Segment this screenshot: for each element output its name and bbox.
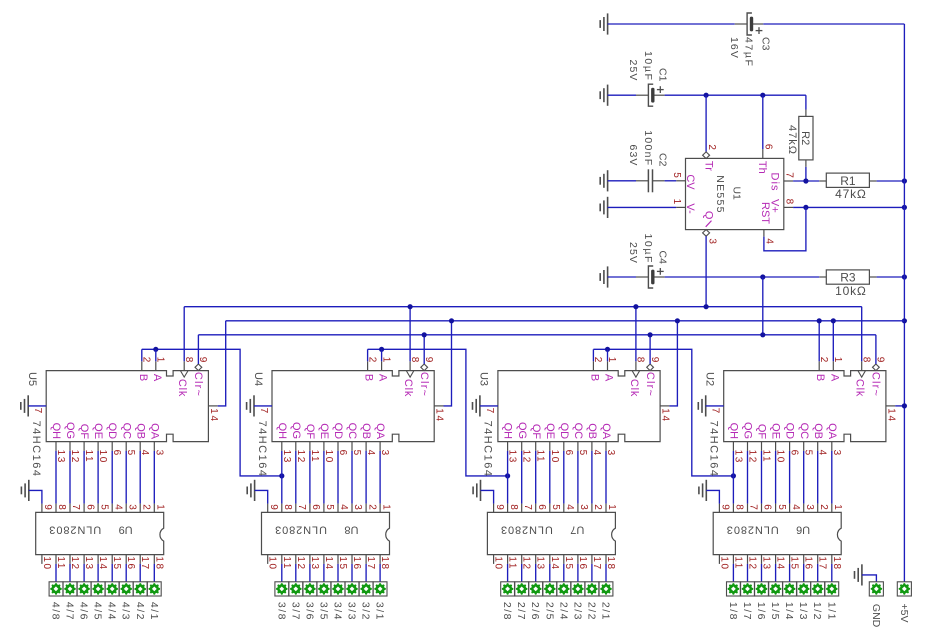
pin R3 right xyxy=(869,276,876,278)
ground (GND connector) xyxy=(855,564,862,585)
svg-text:1/7: 1/7 xyxy=(741,602,753,621)
svg-text:47µF: 47µF xyxy=(742,37,754,68)
svg-text:QC: QC xyxy=(120,423,132,440)
svg-text:V-: V- xyxy=(684,203,696,214)
wire U6 pin 17 to connector xyxy=(817,564,819,582)
svg-text:4: 4 xyxy=(139,450,150,457)
wire U4 QB to U8 pin 2 xyxy=(365,451,367,504)
svg-text:ULN2803: ULN2803 xyxy=(48,523,101,535)
pin stub U6 pin 17 xyxy=(817,555,819,564)
svg-text:2: 2 xyxy=(366,504,377,510)
pin 8 stub U3 xyxy=(635,361,637,370)
wire clock bus to U3 pin 8 xyxy=(635,307,637,362)
pin stub U7 pin 8 xyxy=(507,504,509,513)
pin stub U8 pin 11 xyxy=(281,555,283,564)
svg-text:2: 2 xyxy=(706,144,717,150)
svg-text:QE: QE xyxy=(770,423,782,439)
svg-text:2/5: 2/5 xyxy=(543,602,555,621)
svg-text:10: 10 xyxy=(97,450,108,464)
ground (C3) xyxy=(600,13,607,34)
connector cell 3/7 xyxy=(289,582,303,596)
junction VCC bus/B U2 xyxy=(817,318,822,323)
pin R1 right xyxy=(869,180,876,182)
pin stub U9 pin 2 xyxy=(139,504,141,513)
svg-text:QD: QD xyxy=(558,423,570,440)
svg-text:10: 10 xyxy=(493,556,504,570)
svg-text:6: 6 xyxy=(763,144,774,150)
pin stub U8 pin 10 xyxy=(267,555,269,564)
svg-text:QD: QD xyxy=(332,423,344,440)
connector pin 3/2 xyxy=(360,583,372,595)
svg-text:1/6: 1/6 xyxy=(755,602,767,621)
junction rail U2 pin14 xyxy=(902,403,907,408)
+V rail vertical xyxy=(903,24,905,582)
svg-text:2: 2 xyxy=(592,504,603,510)
svg-text:GND: GND xyxy=(870,604,882,628)
pin stub U7 pin 10 xyxy=(493,555,495,564)
connector cell 4/3 xyxy=(119,582,133,596)
svg-text:6: 6 xyxy=(84,504,95,510)
connector cell 3/4 xyxy=(331,582,345,596)
pin QA stub U4 xyxy=(379,442,381,451)
svg-text:R3: R3 xyxy=(840,271,856,285)
connector cell 2/1 xyxy=(599,582,613,596)
svg-text:4: 4 xyxy=(564,504,575,510)
pin stub U8 pin 5 xyxy=(323,504,325,513)
svg-text:2/3: 2/3 xyxy=(571,602,583,621)
svg-text:63V: 63V xyxy=(627,145,639,167)
pin stub U6 pin 12 xyxy=(747,555,749,564)
wire U2 QB to U6 pin 2 xyxy=(817,451,819,504)
junction VCC bus/A U2 xyxy=(831,318,836,323)
junction cascade/QH xyxy=(731,473,736,478)
junction pin8/pin4 xyxy=(803,205,808,210)
svg-text:4/4: 4/4 xyxy=(106,602,118,621)
svg-text:10: 10 xyxy=(41,556,52,570)
pin stub U7 pin 14 xyxy=(549,555,551,564)
wire clear bus to U5 pin 9 xyxy=(197,335,199,364)
wire U9 pin 18 to connector xyxy=(153,564,155,582)
connector pin 3/6 xyxy=(304,583,316,595)
wire U6 pin 15 to connector xyxy=(789,564,791,582)
wire U6 pin 11 to connector xyxy=(732,564,734,582)
pin 14 stub U3 xyxy=(660,405,669,407)
svg-text:QH: QH xyxy=(50,423,62,440)
connector pin GND xyxy=(871,583,883,595)
pin A stub U3 xyxy=(607,361,609,370)
wire cascade into U4 A/B xyxy=(368,349,508,476)
pin stub U8 pin 4 xyxy=(337,504,339,513)
svg-text:CV: CV xyxy=(684,174,696,190)
pin stub U9 pin 8 xyxy=(55,504,57,513)
pin stub U9 pin 6 xyxy=(83,504,85,513)
wire U8 pin 14 to connector xyxy=(323,564,325,582)
pin stub U7 pin 3 xyxy=(577,504,579,513)
svg-text:QB: QB xyxy=(360,423,372,439)
wire pin 8 to +V rail xyxy=(793,206,904,208)
pin R2 top xyxy=(805,110,807,117)
svg-text:4/7: 4/7 xyxy=(64,602,76,621)
pin stub U8 pin 3 xyxy=(351,504,353,513)
wire U8 pin 16 to connector xyxy=(351,564,353,582)
wire C4 to R3 xyxy=(665,276,820,278)
wire U2 QD to U6 pin 4 xyxy=(789,451,791,504)
wire U3 QH to U7 pin 8 xyxy=(507,451,509,504)
IC U8 ULN2803 body xyxy=(262,512,390,554)
svg-text:11: 11 xyxy=(761,450,772,464)
svg-text:5: 5 xyxy=(550,504,561,510)
wire U7 pin 11 to connector xyxy=(507,564,509,582)
svg-text:QH: QH xyxy=(728,423,740,440)
svg-text:12: 12 xyxy=(521,450,532,464)
svg-text:47kΩ: 47kΩ xyxy=(835,187,867,201)
svg-text:Clr~: Clr~ xyxy=(192,372,204,397)
pin stub U9 pin 10 xyxy=(41,555,43,564)
connector cell 4/5 xyxy=(91,582,105,596)
svg-text:RST: RST xyxy=(759,202,771,224)
svg-text:ULN2803: ULN2803 xyxy=(500,523,553,535)
pin R1 left xyxy=(819,180,826,182)
svg-text:16V: 16V xyxy=(728,37,740,59)
ground U6 pin 9 xyxy=(699,480,706,501)
pin QE stub U5 xyxy=(97,442,99,451)
svg-text:4: 4 xyxy=(338,504,349,510)
svg-text:4/1: 4/1 xyxy=(148,602,160,621)
pin A stub U5 xyxy=(155,361,157,370)
wire A U3 xyxy=(607,349,609,361)
svg-text:QF: QF xyxy=(304,424,316,440)
ground U7 pin 9 xyxy=(473,480,480,501)
pin stub U8 pin 17 xyxy=(365,555,367,564)
svg-text:Th: Th xyxy=(756,161,768,174)
svg-text:C4: C4 xyxy=(656,251,668,265)
connector cell 1/1 xyxy=(825,582,839,596)
svg-text:1: 1 xyxy=(380,504,391,510)
svg-text:7: 7 xyxy=(70,504,81,510)
svg-text:7: 7 xyxy=(296,504,307,510)
svg-text:QH: QH xyxy=(502,423,514,440)
svg-text:U8: U8 xyxy=(344,523,358,535)
svg-text:4: 4 xyxy=(817,450,828,457)
wire R2 to pin7 net xyxy=(805,167,807,181)
svg-text:12: 12 xyxy=(747,450,758,464)
capacitor C2 xyxy=(636,169,665,192)
wire B U4 xyxy=(367,349,369,361)
junction A/B U5 xyxy=(153,347,158,352)
svg-text:Clk: Clk xyxy=(402,379,414,397)
wire U5 QH to U9 pin 8 xyxy=(55,451,57,504)
wire VCC bus to U2 B xyxy=(818,321,820,362)
ground U3 pin 7 xyxy=(473,395,480,416)
pin QD stub U3 xyxy=(563,442,565,451)
svg-text:3: 3 xyxy=(804,504,815,510)
svg-text:U6: U6 xyxy=(796,523,810,535)
connector pin 3/7 xyxy=(290,583,302,595)
pin stub U6 pin 11 xyxy=(732,555,734,564)
pin stub U6 pin 16 xyxy=(803,555,805,564)
svg-text:6: 6 xyxy=(789,450,800,457)
IC U2 74HC164 body xyxy=(724,371,886,442)
wire B U5 xyxy=(141,349,143,361)
svg-text:3/3: 3/3 xyxy=(346,602,358,621)
pin stub U6 pin 4 xyxy=(789,504,791,513)
pin QA stub U5 xyxy=(153,442,155,451)
pin stub U7 pin 4 xyxy=(563,504,565,513)
svg-text:6: 6 xyxy=(111,450,122,457)
wire pin 4 to pin 8 net xyxy=(764,207,806,250)
svg-text:QC: QC xyxy=(798,423,810,440)
svg-text:Dis: Dis xyxy=(768,173,780,192)
svg-text:74HC164: 74HC164 xyxy=(482,421,494,478)
svg-text:QG: QG xyxy=(516,422,528,439)
svg-text:3/4: 3/4 xyxy=(332,602,344,621)
svg-text:C3: C3 xyxy=(760,37,772,51)
wire U9 pin 11 to connector xyxy=(55,564,57,582)
wire U8 pin 11 to connector xyxy=(281,564,283,582)
connector cell 1/7 xyxy=(741,582,755,596)
pin stub U6 pin 15 xyxy=(789,555,791,564)
wire ground to U5 pin 7 xyxy=(28,405,46,407)
connector cell 1/4 xyxy=(783,582,797,596)
wire C3 right to +V rail xyxy=(763,23,904,25)
svg-text:13: 13 xyxy=(55,450,66,464)
pin stub U6 pin 18 xyxy=(831,555,833,564)
svg-text:B: B xyxy=(588,374,600,381)
pin QC stub U3 xyxy=(577,442,579,451)
pin stub U9 pin 13 xyxy=(83,555,85,564)
wire C1 left xyxy=(608,94,636,96)
connector pin 1/2 xyxy=(812,583,824,595)
pin QE stub U4 xyxy=(323,442,325,451)
pin B stub U2 xyxy=(818,361,820,370)
pin stub U6 pin 14 xyxy=(775,555,777,564)
svg-text:6: 6 xyxy=(762,504,773,510)
wire A U5 xyxy=(155,349,157,361)
wire U7 pin 12 to connector xyxy=(521,564,523,582)
svg-text:3: 3 xyxy=(578,504,589,510)
svg-text:U2: U2 xyxy=(704,372,716,386)
svg-text:ULN2803: ULN2803 xyxy=(726,523,779,535)
svg-text:2/2: 2/2 xyxy=(585,602,597,621)
svg-text:5: 5 xyxy=(98,504,109,510)
pin QG stub U2 xyxy=(747,442,749,451)
pin stub U8 pin 1 xyxy=(379,504,381,513)
svg-text:100nF: 100nF xyxy=(642,130,654,166)
resistor R2 xyxy=(799,116,813,159)
pin stub U8 pin 2 xyxy=(365,504,367,513)
inversion bubble Clr U2 xyxy=(873,364,880,371)
pin QE stub U3 xyxy=(549,442,551,451)
wire U9 pin 13 to connector xyxy=(83,564,85,582)
pin QB stub U3 xyxy=(591,442,593,451)
connector cell 2/7 xyxy=(515,582,529,596)
pin 14 stub U2 xyxy=(886,405,895,407)
pin QC stub U2 xyxy=(803,442,805,451)
pin stub U7 pin 15 xyxy=(563,555,565,564)
svg-text:11: 11 xyxy=(535,450,546,464)
pin QB stub U2 xyxy=(817,442,819,451)
connector pin 4/3 xyxy=(120,583,132,595)
svg-text:12: 12 xyxy=(69,450,80,464)
connector cell 4/1 xyxy=(147,582,161,596)
svg-text:9: 9 xyxy=(42,504,53,510)
svg-text:QC: QC xyxy=(572,423,584,440)
svg-text:3/6: 3/6 xyxy=(303,602,315,621)
wire U4 QH to U8 pin 8 xyxy=(281,451,283,504)
pin 5 stub xyxy=(676,180,685,182)
svg-text:4: 4 xyxy=(790,504,801,510)
wire cascade into U5 A/B xyxy=(142,349,282,476)
wire U5 QG to U9 pin 7 xyxy=(69,451,71,504)
pin QC stub U5 xyxy=(125,442,127,451)
connector pin 2/5 xyxy=(544,583,556,595)
pin stub U7 pin 9 xyxy=(493,504,495,513)
wire U5 QB to U9 pin 2 xyxy=(139,451,141,504)
wire U3 QB to U7 pin 2 xyxy=(591,451,593,504)
connector cell 3/1 xyxy=(373,582,387,596)
svg-text:R2: R2 xyxy=(799,131,811,145)
pin R3 left xyxy=(819,276,826,278)
pin stub U6 pin 9 xyxy=(718,504,720,513)
connector pin 1/4 xyxy=(784,583,796,595)
svg-text:QB: QB xyxy=(586,423,598,439)
svg-text:12: 12 xyxy=(295,450,306,464)
ground U4 pin 7 xyxy=(247,395,254,416)
svg-text:4/2: 4/2 xyxy=(134,602,146,621)
svg-text:14: 14 xyxy=(660,408,671,422)
svg-text:QA: QA xyxy=(826,423,838,440)
IC U7 ULN2803 body xyxy=(487,512,615,554)
inversion bubble pin 3 xyxy=(703,230,710,237)
svg-text:3: 3 xyxy=(379,450,390,457)
wire clear bus to U3 pin 9 xyxy=(649,335,651,364)
pin R2 bottom xyxy=(805,160,807,167)
overbar of Q xyxy=(706,221,712,227)
connector pin 4/5 xyxy=(92,583,104,595)
connector pin 2/1 xyxy=(600,583,612,595)
connector pin 1/1 xyxy=(826,583,838,595)
pin QF stub U4 xyxy=(309,442,311,451)
pin stub U7 pin 17 xyxy=(591,555,593,564)
svg-text:47kΩ: 47kΩ xyxy=(786,125,798,155)
wire U9 pin 12 to connector xyxy=(69,564,71,582)
svg-text:A: A xyxy=(377,374,389,382)
connector cell 2/8 xyxy=(501,582,515,596)
junction clock bus U4 xyxy=(408,304,413,309)
wire ground to U3 pin 7 xyxy=(480,405,498,407)
svg-text:Clr~: Clr~ xyxy=(418,372,430,397)
pin stub U8 pin 18 xyxy=(379,555,381,564)
connector pin 1/3 xyxy=(798,583,810,595)
connector pin 1/6 xyxy=(756,583,768,595)
svg-text:QF: QF xyxy=(78,424,90,440)
wire U4 QE to U8 pin 5 xyxy=(323,451,325,504)
svg-text:Clk: Clk xyxy=(854,379,866,397)
connector cell 3/5 xyxy=(317,582,331,596)
svg-text:QG: QG xyxy=(742,422,754,439)
svg-text:10: 10 xyxy=(267,556,278,570)
svg-text:9: 9 xyxy=(720,504,731,510)
junction clock bus U3 xyxy=(633,304,638,309)
connector pin 2/8 xyxy=(502,583,514,595)
connector GND body xyxy=(869,582,883,596)
svg-text:8: 8 xyxy=(508,504,519,510)
pin stub U7 pin 1 xyxy=(605,504,607,513)
capacitor C1 xyxy=(636,84,665,106)
svg-text:3: 3 xyxy=(605,450,616,457)
pin 14 stub U5 xyxy=(208,405,217,407)
svg-text:1: 1 xyxy=(155,504,166,510)
svg-text:1/2: 1/2 xyxy=(811,602,823,621)
pin 8 stub U4 xyxy=(409,361,411,370)
svg-text:14: 14 xyxy=(434,408,445,422)
wire ground to U9 pin 9 xyxy=(29,490,42,503)
svg-text:Q: Q xyxy=(702,211,714,220)
svg-text:10: 10 xyxy=(775,450,786,464)
wire clock bus to U4 pin 8 xyxy=(409,307,411,362)
pin stub U8 pin 14 xyxy=(323,555,325,564)
svg-text:13: 13 xyxy=(281,450,292,464)
svg-text:Clr~: Clr~ xyxy=(870,372,882,397)
svg-text:5: 5 xyxy=(803,450,814,457)
svg-text:2: 2 xyxy=(140,504,151,510)
wire U7 pin 17 to connector xyxy=(591,564,593,582)
wire C4 left xyxy=(608,276,636,278)
svg-text:14: 14 xyxy=(208,408,219,422)
wire U8 pin 13 to connector xyxy=(309,564,311,582)
connector pin 3/5 xyxy=(318,583,330,595)
connector cell 1/3 xyxy=(797,582,811,596)
connector cell 4/7 xyxy=(63,582,77,596)
connector pin 2/3 xyxy=(572,583,584,595)
svg-text:QD: QD xyxy=(784,423,796,440)
wire 555 Q output down to clock bus xyxy=(705,236,707,307)
wire U5 pin 14 to VCC bus xyxy=(218,321,226,406)
connector pin +5V xyxy=(899,583,911,595)
svg-text:R1: R1 xyxy=(840,174,856,188)
svg-text:6: 6 xyxy=(563,450,574,457)
svg-text:1: 1 xyxy=(671,199,682,205)
pin stub U9 pin 18 xyxy=(153,555,155,564)
connector pin 2/2 xyxy=(586,583,598,595)
svg-text:U1: U1 xyxy=(731,186,743,200)
svg-text:5: 5 xyxy=(125,450,136,457)
clock wedge U4 xyxy=(406,371,414,378)
pin stub U9 pin 1 xyxy=(153,504,155,513)
pin stub U6 pin 5 xyxy=(775,504,777,513)
connector pin 2/4 xyxy=(558,583,570,595)
connector cell 3/8 xyxy=(275,582,289,596)
junction A/B U3 xyxy=(605,347,610,352)
svg-text:3/5: 3/5 xyxy=(317,602,329,621)
ground U2 pin 7 xyxy=(698,395,705,416)
pin stub U8 pin 16 xyxy=(351,555,353,564)
connector cell 2/4 xyxy=(557,582,571,596)
junction pin7/R2 xyxy=(803,178,808,183)
pin 7 stub xyxy=(784,180,793,182)
junction cascade/QH xyxy=(279,473,284,478)
wire U3 QC to U7 pin 3 xyxy=(577,451,579,504)
junction rail/VCC bus xyxy=(902,318,907,323)
svg-text:A: A xyxy=(828,374,840,382)
svg-text:7: 7 xyxy=(748,504,759,510)
svg-text:3: 3 xyxy=(153,450,164,457)
svg-text:2/4: 2/4 xyxy=(557,602,569,621)
pin stub U9 pin 7 xyxy=(69,504,71,513)
wire U4 QF to U8 pin 6 xyxy=(309,451,311,504)
pin QD stub U5 xyxy=(111,442,113,451)
pin QF stub U2 xyxy=(761,442,763,451)
